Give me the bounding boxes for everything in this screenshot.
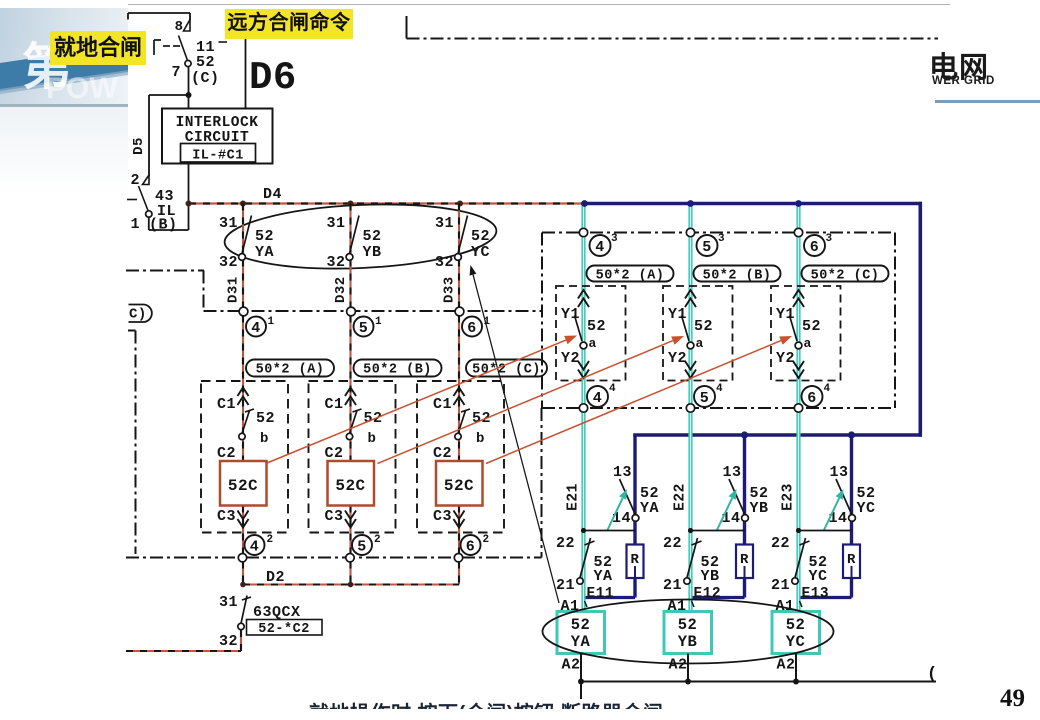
highlight ellipse 52Y coils	[543, 600, 834, 664]
connector arrows down phase C	[454, 511, 465, 528]
callout label local close	[50, 31, 146, 65]
svg-text:8: 8	[175, 19, 184, 35]
contact 52YB 21-22	[663, 535, 720, 594]
junction dot D2 phase A	[240, 582, 246, 588]
svg-text:C3: C3	[324, 508, 343, 525]
svg-text:YB: YB	[678, 633, 698, 651]
svg-text:52C: 52C	[228, 477, 258, 495]
svg-text:YB: YB	[363, 244, 382, 261]
wire D4 bus highlighted	[189, 202, 585, 204]
svg-text:YB: YB	[750, 500, 769, 517]
junction dot link A	[581, 528, 586, 533]
resistor R phase A	[627, 545, 644, 579]
svg-text:13: 13	[722, 464, 741, 481]
svg-text:IL-#C1: IL-#C1	[192, 149, 244, 164]
svg-text:R: R	[631, 552, 640, 568]
terminal mark 4 sup1	[246, 316, 275, 337]
connector arrows up phase B	[345, 388, 356, 406]
callout label remote close command	[225, 9, 353, 39]
pointer arrow 52C B to 52a B	[378, 341, 673, 464]
dashed box 52a phase C	[771, 286, 841, 381]
svg-text:5: 5	[700, 390, 710, 407]
junction dot D4 phase B	[348, 201, 354, 207]
coil 52C phase C	[436, 461, 483, 506]
label A1 phase B	[667, 598, 694, 615]
svg-text:50*2 (C): 50*2 (C)	[811, 269, 880, 284]
svg-text:4: 4	[823, 383, 830, 395]
wire 63QCX down-left highlighted	[126, 630, 241, 651]
terminal mark 5 sup2	[352, 534, 381, 556]
svg-text:E11: E11	[587, 586, 615, 602]
svg-text:4: 4	[593, 390, 603, 407]
label 11 52 (C)	[191, 39, 227, 87]
svg-text:D32: D32	[333, 276, 349, 303]
wire negative bus bottom	[581, 680, 936, 682]
svg-text:a: a	[589, 336, 597, 351]
label 50*2 (C) right	[802, 266, 889, 284]
terminal circle phase B bottom	[346, 554, 354, 562]
terminal mark 6 sup2	[461, 534, 490, 556]
svg-text:1: 1	[375, 316, 382, 328]
svg-text:YA: YA	[640, 500, 659, 517]
svg-text:YB: YB	[701, 568, 720, 585]
connector arrows up phase C	[454, 388, 465, 406]
wire coil 52YC to negative bus	[795, 654, 797, 682]
svg-text:32: 32	[219, 254, 238, 271]
svg-text:D5: D5	[131, 137, 147, 155]
connector arrows down phase B	[345, 511, 356, 528]
svg-text:A2: A2	[668, 657, 687, 674]
wire link A to resistor branch	[584, 530, 636, 532]
svg-text:E22: E22	[673, 483, 689, 511]
wire junction into interlock box	[188, 95, 190, 109]
wire coil 52YA to negative bus	[580, 654, 582, 682]
svg-text:YC: YC	[857, 500, 876, 517]
wire navy right vertical	[918, 202, 922, 437]
svg-text:7: 7	[171, 64, 181, 81]
junction dot navy teal A	[581, 200, 588, 207]
svg-text:(: (	[927, 665, 938, 684]
label box 52-*C2	[247, 620, 323, 638]
svg-text:2: 2	[482, 534, 489, 546]
svg-text:D6: D6	[249, 56, 297, 100]
svg-text:4: 4	[716, 383, 723, 395]
svg-text:C1: C1	[433, 396, 452, 413]
wire phase B closing path highlighted	[349, 204, 351, 585]
svg-text:52: 52	[786, 616, 806, 634]
terminal D31 circle	[226, 276, 248, 316]
svg-text:52: 52	[694, 318, 713, 335]
junction dot negative B	[685, 679, 691, 685]
wire D5 vertical	[131, 95, 149, 176]
coil 52YC	[772, 612, 820, 654]
junction dot D4 phase C	[457, 201, 463, 207]
wire teal phase C	[796, 204, 800, 613]
terminal circle top edge phase A	[579, 228, 587, 236]
wire phase C closing path highlighted	[458, 204, 460, 585]
svg-text:4: 4	[251, 320, 261, 337]
junction dot D4 interlock	[186, 201, 192, 207]
wire teal phase A white core	[583, 206, 585, 610]
svg-text:C1: C1	[217, 396, 236, 413]
panel boundary dash-dot left lower	[126, 331, 542, 558]
pointer arrow 52C A to 52a A	[267, 340, 566, 463]
terminal mark 6 sup1	[462, 316, 491, 337]
terminal circle top edge phase C	[794, 228, 802, 236]
wire top-left corner to contact 8	[128, 13, 190, 20]
svg-text:31: 31	[326, 215, 345, 232]
terminal mark 4 sup3	[590, 233, 619, 256]
connector arrows down phase A	[238, 511, 249, 528]
connector arrows up 52a A	[578, 290, 589, 307]
contact 52b phase B	[346, 409, 382, 447]
pointer arrow 52C C to 52a C	[486, 341, 781, 464]
svg-text:52: 52	[587, 318, 606, 335]
svg-text:13: 13	[829, 464, 848, 481]
scan top grey line	[128, 4, 950, 5]
terminal circle bottom edge phase C	[794, 404, 802, 412]
svg-text:6: 6	[810, 239, 820, 256]
svg-text:a: a	[696, 336, 704, 351]
svg-text:YC: YC	[809, 568, 828, 585]
dashed unit box 52C phase B	[309, 381, 396, 533]
svg-text:32: 32	[219, 633, 238, 650]
contact 52(C) terminal 8 triangle	[175, 19, 190, 35]
slide banner bottom edge	[0, 104, 128, 107]
contact 43 IL(B) terminal 1 circle	[130, 211, 152, 233]
svg-text:INTERLOCK: INTERLOCK	[176, 115, 259, 131]
svg-text:3: 3	[611, 233, 618, 245]
pointer arrow coils to contact 52YC	[473, 275, 559, 603]
svg-text:D33: D33	[442, 276, 458, 303]
relay cubicle dash-dot box right	[542, 233, 895, 409]
svg-text:6: 6	[466, 539, 476, 556]
svg-text:5: 5	[359, 320, 369, 337]
svg-text:50*2 (B): 50*2 (B)	[363, 363, 432, 378]
junction dot navy teal B	[687, 200, 694, 207]
svg-text:63QCX: 63QCX	[253, 604, 301, 621]
terminal mark 5 sup3	[697, 233, 726, 256]
slide banner title text fragment	[22, 27, 128, 89]
label A1 phase C	[775, 598, 802, 615]
wire navy branch C	[850, 435, 853, 598]
coil 52C phase A	[220, 461, 267, 506]
wire navy branch B	[743, 435, 746, 598]
svg-text:C2: C2	[324, 445, 343, 462]
wire teal phase B	[688, 204, 692, 613]
wire link B to resistor branch	[691, 530, 745, 532]
svg-text:52: 52	[364, 410, 383, 427]
slide banner fade below	[0, 107, 128, 195]
contact 43 IL(B) triangle terminal 2	[130, 172, 149, 189]
wire D2 bus highlighted	[243, 583, 459, 585]
svg-text:C2: C2	[217, 445, 236, 462]
contact 63QCX 31-32	[219, 594, 301, 650]
panel boundary dash-dot top-right	[407, 16, 939, 39]
connector arrows down 52a B	[685, 361, 696, 378]
terminal mark 5 sup1	[354, 316, 383, 337]
arrow teal to 52YB 13-14	[717, 498, 733, 531]
logo text fragment 电网	[929, 44, 1039, 76]
svg-text:52: 52	[571, 616, 591, 634]
wire coil 52YB to negative bus	[687, 654, 689, 682]
junction dot link C	[796, 528, 801, 533]
svg-text:4: 4	[250, 539, 260, 556]
contact 43 IL(B) moving contact	[127, 186, 148, 211]
contact 52YC 21-22	[771, 535, 828, 594]
bottom caption text partially covered	[309, 697, 699, 709]
svg-text:6: 6	[807, 390, 817, 407]
junction dot negative A	[578, 679, 584, 685]
svg-text:YA: YA	[594, 568, 613, 585]
wire remote-close command vertical	[245, 39, 247, 109]
svg-text:2: 2	[374, 534, 381, 546]
contact 52a phase B	[668, 306, 713, 367]
svg-text:YA: YA	[571, 633, 591, 651]
svg-text:C): C)	[129, 307, 147, 323]
wire negative bus tail	[580, 682, 582, 700]
svg-text:Y2: Y2	[561, 350, 580, 367]
svg-text:52: 52	[472, 410, 491, 427]
slide banner background top-left	[0, 8, 128, 105]
svg-text:(B): (B)	[149, 217, 178, 234]
svg-text:E23: E23	[781, 483, 797, 511]
svg-text:D31: D31	[226, 276, 242, 303]
wire contact 7 to junction	[188, 67, 190, 96]
resistor R phase B	[736, 545, 753, 579]
terminal D32 circle	[333, 276, 355, 316]
wire teal phase B white core	[690, 206, 692, 611]
svg-text:YC: YC	[786, 633, 806, 651]
wire phase A closing path highlighted	[242, 204, 244, 585]
wire navy positive bus top	[585, 202, 923, 206]
contact 52YC 13-14	[828, 464, 875, 527]
svg-text:31: 31	[219, 594, 238, 611]
svg-text:52: 52	[471, 228, 490, 245]
contact 52YB 13-14	[721, 464, 768, 527]
svg-text:5: 5	[702, 239, 712, 256]
terminal mark 5 sup4	[694, 383, 723, 407]
junction dot D4 phase A	[240, 201, 246, 207]
svg-text:R: R	[740, 552, 749, 568]
contact 52YA 21-22	[556, 535, 613, 594]
dashed box 52a phase A	[556, 286, 626, 381]
svg-text:A2: A2	[776, 657, 795, 674]
contact 52(C) terminal 7 circle	[171, 60, 191, 81]
svg-text:50*2 (B): 50*2 (B)	[703, 269, 772, 284]
wire navy branch A	[633, 435, 636, 598]
svg-text:52: 52	[678, 616, 698, 634]
junction dot navy teal C	[795, 200, 802, 207]
label 50*2 (A) right	[587, 266, 674, 284]
svg-text:Y2: Y2	[668, 350, 687, 367]
svg-text:21: 21	[663, 577, 682, 594]
wire 43IL lower L	[149, 229, 189, 231]
wire navy bottom link C	[798, 596, 852, 599]
terminal circle top edge phase B	[686, 228, 694, 236]
wire junction to D5	[149, 94, 189, 96]
contact 52(C) 8-7 moving contact	[154, 36, 188, 61]
svg-text:Y2: Y2	[776, 350, 795, 367]
junction dot navy rail2 B	[741, 431, 748, 438]
label 50*2 (B) left	[354, 360, 442, 378]
svg-text:6: 6	[467, 320, 477, 337]
svg-text:C3: C3	[433, 508, 452, 525]
terminal D33 circle	[442, 276, 464, 316]
svg-text:Y1: Y1	[776, 306, 795, 323]
svg-text:1: 1	[267, 316, 274, 328]
junction dot navy rail2 C	[848, 431, 855, 438]
connector arrows down 52a C	[793, 361, 804, 378]
svg-text:Y1: Y1	[561, 306, 580, 323]
svg-text:3: 3	[718, 233, 725, 245]
terminal mark 6 sup3	[804, 233, 833, 256]
wire contact 1 down	[148, 217, 150, 230]
arrow teal to 52YC 13-14	[824, 498, 840, 531]
terminal circle phase A bottom	[238, 554, 246, 562]
svg-text:Y1: Y1	[668, 306, 687, 323]
svg-text:52-*C2: 52-*C2	[258, 622, 310, 637]
svg-text:21: 21	[771, 577, 790, 594]
svg-text:22: 22	[663, 535, 682, 552]
svg-text:b: b	[476, 431, 485, 447]
connector arrows up 52a B	[685, 290, 696, 307]
svg-text:32: 32	[435, 254, 454, 271]
terminal circle bottom edge phase B	[686, 404, 694, 412]
label 43 IL (B)	[149, 188, 178, 234]
slide header rule line	[935, 100, 1040, 103]
svg-text:D2: D2	[266, 569, 285, 586]
svg-text:A2: A2	[561, 657, 580, 674]
svg-text:13: 13	[613, 464, 632, 481]
terminal mark 4 sup4	[587, 383, 616, 407]
coil 52YA	[557, 612, 605, 654]
svg-text:52C: 52C	[444, 477, 474, 495]
svg-text:4: 4	[595, 239, 605, 256]
svg-text:C3: C3	[217, 508, 236, 525]
svg-text:YC: YC	[471, 244, 490, 261]
svg-text:50*2 (A): 50*2 (A)	[596, 269, 665, 284]
slide banner swoosh band	[0, 8, 128, 105]
panel boundary dash-dot left upper	[126, 271, 542, 312]
contact 52b phase C	[455, 409, 491, 447]
contact 52a phase C	[776, 306, 821, 367]
svg-text:1: 1	[130, 216, 140, 233]
wire link C to resistor branch	[799, 530, 852, 532]
svg-text:52: 52	[802, 318, 821, 335]
contact 52a phase A	[561, 306, 606, 367]
page number 49	[1000, 685, 1036, 713]
svg-text:31: 31	[435, 215, 454, 232]
svg-text:C2: C2	[433, 445, 452, 462]
terminal circle bottom edge phase A	[579, 404, 587, 412]
connector arrows up phase A	[238, 388, 249, 406]
dashed unit box 52C phase C	[417, 381, 504, 533]
label A1 phase A	[560, 598, 587, 615]
svg-text:21: 21	[556, 577, 575, 594]
svg-text:YA: YA	[255, 244, 274, 261]
terminal mark 4 sup2	[245, 534, 274, 556]
junction dot below 52(C)	[186, 92, 192, 98]
junction dot negative C	[793, 679, 799, 685]
svg-text:D4: D4	[263, 186, 282, 203]
svg-text:52: 52	[196, 54, 215, 71]
svg-text:b: b	[368, 431, 377, 447]
contact 52YC 31-32	[435, 215, 490, 271]
contact 52YA 31-32	[219, 215, 274, 271]
svg-text:E21: E21	[566, 483, 582, 511]
svg-text:E13: E13	[802, 586, 830, 602]
logo text fragment POWER GRID	[932, 75, 1040, 88]
contact 52YA 13-14	[612, 464, 659, 527]
wire navy rail 2	[633, 433, 922, 437]
svg-text:52C: 52C	[335, 477, 365, 495]
svg-text:52: 52	[363, 228, 382, 245]
wire navy bottom link B	[689, 596, 745, 599]
svg-text:3: 3	[825, 233, 832, 245]
svg-text:4: 4	[609, 383, 616, 395]
svg-text:b: b	[260, 431, 269, 447]
terminal circle phase C bottom	[454, 554, 462, 562]
dashed unit box 52C phase A	[201, 381, 288, 533]
connector arrows up 52a C	[793, 290, 804, 307]
node (C) label left	[129, 305, 152, 323]
svg-text:22: 22	[556, 535, 575, 552]
svg-text:5: 5	[357, 539, 367, 556]
wire interlock box to D4	[188, 164, 190, 231]
wire teal phase C white core	[798, 206, 800, 611]
junction dot D2 phase B	[348, 582, 354, 588]
interlock circuit box U-IL	[162, 109, 273, 164]
terminal mark 6 sup4	[802, 383, 831, 407]
arrow teal to 52YA 13-14	[607, 498, 623, 531]
svg-text:32: 32	[326, 254, 345, 271]
wire teal phase A	[581, 204, 585, 612]
svg-text:31: 31	[219, 215, 238, 232]
coil 52YB	[664, 612, 712, 654]
svg-text:(C): (C)	[191, 70, 220, 87]
slide banner POWER watermark	[46, 72, 128, 105]
resistor R phase C	[843, 545, 860, 579]
contact 52YB 31-32	[326, 215, 381, 271]
svg-text:C1: C1	[324, 396, 343, 413]
svg-text:52: 52	[255, 228, 274, 245]
svg-text:50*2 (A): 50*2 (A)	[256, 363, 325, 378]
svg-text:52: 52	[256, 410, 275, 427]
label 50*2 (B) right	[694, 266, 781, 284]
dashed box 52a phase B	[663, 286, 733, 381]
label 50*2 (A) left	[246, 360, 334, 378]
svg-text:R: R	[847, 552, 856, 568]
svg-text:2: 2	[266, 534, 273, 546]
highlight ellipse 52Y contacts	[223, 199, 497, 274]
coil 52C phase B	[328, 461, 375, 506]
junction dot link B	[688, 528, 693, 533]
svg-text:a: a	[804, 336, 812, 351]
svg-text:22: 22	[771, 535, 790, 552]
panel boundary dash-dot right connector	[541, 408, 543, 558]
label 50*2 (C) left	[466, 360, 547, 378]
wire navy bottom link A	[582, 596, 636, 599]
contact 52b phase A	[239, 409, 275, 447]
connector arrows down 52a A	[578, 361, 589, 378]
